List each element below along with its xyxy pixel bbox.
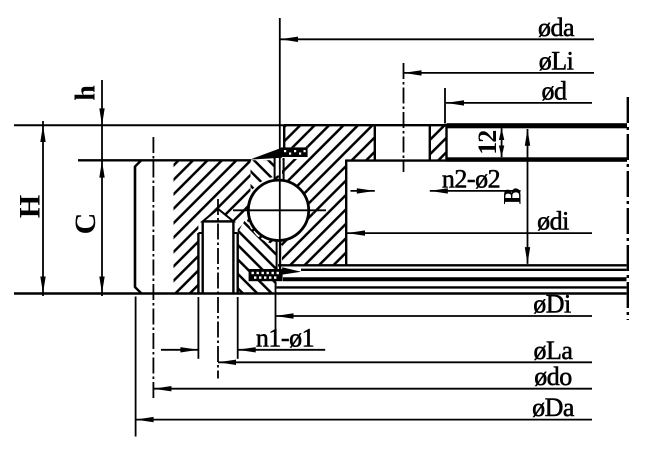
dimension øda line xyxy=(280,38,594,40)
svg-text:n1-ø1: n1-ø1 xyxy=(256,323,314,352)
plug cone tip xyxy=(203,209,234,222)
dimension C and h shared line xyxy=(101,80,103,296)
dimension ødi line xyxy=(347,232,592,234)
outer ring bottom-left chamfer xyxy=(135,287,142,293)
øLi arrow xyxy=(404,70,422,75)
ball vertical centerline / øda extension line xyxy=(279,18,281,270)
øLa arrow xyxy=(218,360,236,365)
inner ring flange right strip beyond bolt hole xyxy=(430,125,447,160)
lower support line 2 xyxy=(301,269,627,271)
svg-text:øDa: øDa xyxy=(532,393,575,422)
n2 bolt axis centerline xyxy=(403,63,405,172)
inner ring bottom line xyxy=(278,264,627,266)
plug body right wall xyxy=(232,221,234,293)
plug axis centerline xyxy=(217,199,219,379)
bottom seal strip xyxy=(249,269,283,281)
øda arrow xyxy=(280,37,298,42)
inner ring lower section (hatched, raceway subtracted) xyxy=(244,159,346,265)
plug counterbore step left xyxy=(198,232,202,234)
plug hole left wall xyxy=(197,233,199,293)
B top arrow xyxy=(525,129,530,146)
H top arrow xyxy=(40,125,45,142)
dimension n2-ø2 left segment xyxy=(351,190,375,192)
svg-text:øLi: øLi xyxy=(539,46,574,75)
øDa extension line xyxy=(135,297,137,437)
svg-text:øda: øda xyxy=(538,13,575,42)
ball xyxy=(248,180,308,240)
top extension line from left to inner ring top xyxy=(14,124,284,126)
dimension B line xyxy=(527,129,529,264)
dimension øDa line xyxy=(136,419,592,421)
bottom seal strip texture dots xyxy=(252,272,279,279)
svg-text:12: 12 xyxy=(473,131,502,155)
bottom seal wedge lip xyxy=(282,267,301,274)
inner ring flange main part xyxy=(308,125,375,160)
plug body left wall xyxy=(201,221,203,293)
n2-ø2 left arrow xyxy=(357,188,375,193)
n1 hole left extension line xyxy=(197,297,199,359)
outer ring section (hatched, with bolt hole, plug hole and seal groove subtracted) xyxy=(174,160,314,293)
svg-text:H: H xyxy=(14,195,47,218)
C bottom arrow xyxy=(99,277,104,294)
bottom line full width xyxy=(14,292,627,295)
ødo bolt axis centerline xyxy=(152,137,154,399)
dimension ødo line xyxy=(153,388,592,390)
svg-text:n2-ø2: n2-ø2 xyxy=(442,164,500,193)
top seal strip xyxy=(281,147,308,157)
inner ring flange left edge xyxy=(283,125,285,149)
inner ring flange left part above seal xyxy=(284,125,307,147)
seal retainer wedge region below ball (opposite hatch) xyxy=(238,218,277,293)
øDa arrow xyxy=(136,417,154,422)
bolt hole n2 right wall xyxy=(429,125,431,160)
inner ring bore face xyxy=(445,125,447,162)
n2-ø2 right arrow xyxy=(430,188,448,193)
dimension øDi line xyxy=(276,315,593,317)
h/C arrow pointing up below outer ring top xyxy=(99,161,104,178)
dimension n2-ø2 right segment xyxy=(430,190,521,192)
dimension øLi line xyxy=(404,72,595,74)
dimension n1-ø1 right segment xyxy=(238,349,326,351)
outer ring top-left chamfer xyxy=(135,161,142,167)
inner ring flange bottom xyxy=(346,159,447,161)
øDi arrow xyxy=(276,313,294,318)
gap channel below ball left wall xyxy=(276,240,278,270)
plug cap top edge xyxy=(203,220,234,222)
ød extension line xyxy=(444,88,446,124)
svg-text:ødi: ødi xyxy=(537,207,569,236)
gap channel above ball left wall xyxy=(274,158,276,181)
plug counterbore step right xyxy=(233,232,237,234)
gap channel above ball right wall xyxy=(283,158,285,181)
svg-text:ødo: ødo xyxy=(534,362,572,391)
svg-text:øLa: øLa xyxy=(534,336,574,365)
inner ring top edge xyxy=(284,124,447,126)
svg-text:ød: ød xyxy=(542,76,568,105)
ødo arrow xyxy=(153,386,171,391)
top seal strip texture dots xyxy=(284,150,306,155)
outer ring top extension line xyxy=(78,159,251,161)
upper support plate thick bar 2 xyxy=(447,157,628,162)
dimension øLa line xyxy=(218,361,592,363)
dimension n1-ø1 left segment xyxy=(161,349,198,351)
dimension ød line xyxy=(446,102,592,104)
seal retainer wedge region above ball (opposite hatch) xyxy=(251,160,275,192)
svg-text:h: h xyxy=(71,85,102,101)
svg-text:C: C xyxy=(69,213,102,235)
øDi extension line xyxy=(275,282,277,330)
bolt hole n2 left wall xyxy=(374,125,376,160)
top seal wedge lip xyxy=(250,148,282,160)
inner ring right edge xyxy=(345,160,347,267)
ød arrow xyxy=(446,100,464,105)
ødi arrow xyxy=(347,230,365,235)
outer ring left face xyxy=(134,167,137,288)
dimension 12 line with arrows xyxy=(501,128,503,157)
n1 hole right extension line xyxy=(237,297,239,359)
h top arrow pointing down xyxy=(99,108,104,125)
plug hole right wall xyxy=(236,233,238,293)
dimension H line xyxy=(42,121,44,296)
upper support plate thick bar 1 xyxy=(447,123,628,128)
gap channel below ball right wall xyxy=(279,240,281,270)
B bottom arrow xyxy=(525,247,530,264)
bearing bore axis centerline right xyxy=(627,97,629,320)
ball horizontal centerline xyxy=(233,209,326,211)
lower support line 4 xyxy=(276,286,626,288)
n1-ø1 right arrow xyxy=(238,347,256,352)
svg-text:øDi: øDi xyxy=(533,290,571,319)
lower support thick bar xyxy=(283,277,627,281)
n1-ø1 left arrow xyxy=(180,347,198,352)
H bottom arrow xyxy=(40,277,45,294)
